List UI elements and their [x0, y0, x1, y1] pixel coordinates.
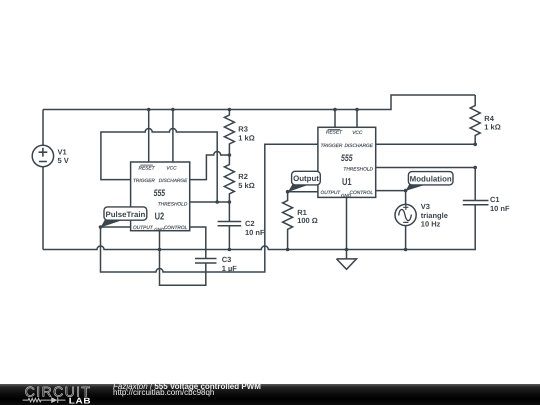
svg-text:10 nF: 10 nF — [490, 204, 510, 213]
svg-text:C1: C1 — [490, 195, 500, 204]
svg-text:1 µF: 1 µF — [222, 264, 238, 273]
svg-text:OUTPUT: OUTPUT — [133, 225, 154, 231]
svg-text:TRIGGER: TRIGGER — [321, 143, 343, 149]
svg-text:CONTROL: CONTROL — [164, 225, 188, 231]
svg-text:TRIGGER: TRIGGER — [133, 178, 155, 184]
svg-text:V1: V1 — [58, 147, 67, 156]
svg-text:555: 555 — [341, 152, 353, 163]
svg-text:triangle: triangle — [421, 211, 448, 220]
svg-text:U1: U1 — [342, 177, 352, 188]
svg-text:1 kΩ: 1 kΩ — [484, 123, 500, 132]
svg-text:10 nF: 10 nF — [245, 228, 265, 237]
svg-text:THRESHOLD: THRESHOLD — [343, 166, 373, 172]
svg-text:RESET: RESET — [139, 165, 156, 171]
svg-text:VCC: VCC — [352, 130, 363, 136]
svg-text:Output: Output — [293, 174, 319, 183]
svg-text:OUTPUT: OUTPUT — [321, 190, 342, 196]
svg-text:DISCHARGE: DISCHARGE — [344, 143, 373, 149]
svg-text:PulseTrain: PulseTrain — [105, 210, 145, 219]
svg-text:GND: GND — [341, 193, 352, 198]
svg-text:VCC: VCC — [166, 165, 177, 171]
svg-text:C3: C3 — [222, 255, 232, 264]
svg-text:C2: C2 — [245, 219, 255, 228]
svg-text:DISCHARGE: DISCHARGE — [159, 178, 188, 184]
svg-text:10 Hz: 10 Hz — [421, 220, 441, 229]
svg-text:100 Ω: 100 Ω — [297, 216, 318, 225]
svg-text:R4: R4 — [484, 114, 494, 123]
svg-text:1 kΩ: 1 kΩ — [238, 134, 254, 143]
svg-text:THRESHOLD: THRESHOLD — [158, 202, 188, 208]
svg-text:5 V: 5 V — [58, 156, 69, 165]
svg-text:GND: GND — [154, 227, 165, 232]
svg-text:U2: U2 — [155, 211, 165, 222]
svg-text:R3: R3 — [238, 125, 248, 134]
svg-text:R2: R2 — [238, 172, 248, 181]
svg-text:Modulation: Modulation — [410, 174, 452, 183]
svg-text:CONTROL: CONTROL — [350, 190, 374, 196]
svg-text:V3: V3 — [421, 202, 430, 211]
svg-text:555: 555 — [154, 187, 166, 198]
svg-text:LAB: LAB — [69, 396, 91, 405]
svg-text:RESET: RESET — [326, 130, 343, 136]
svg-text:5 kΩ: 5 kΩ — [238, 181, 254, 190]
